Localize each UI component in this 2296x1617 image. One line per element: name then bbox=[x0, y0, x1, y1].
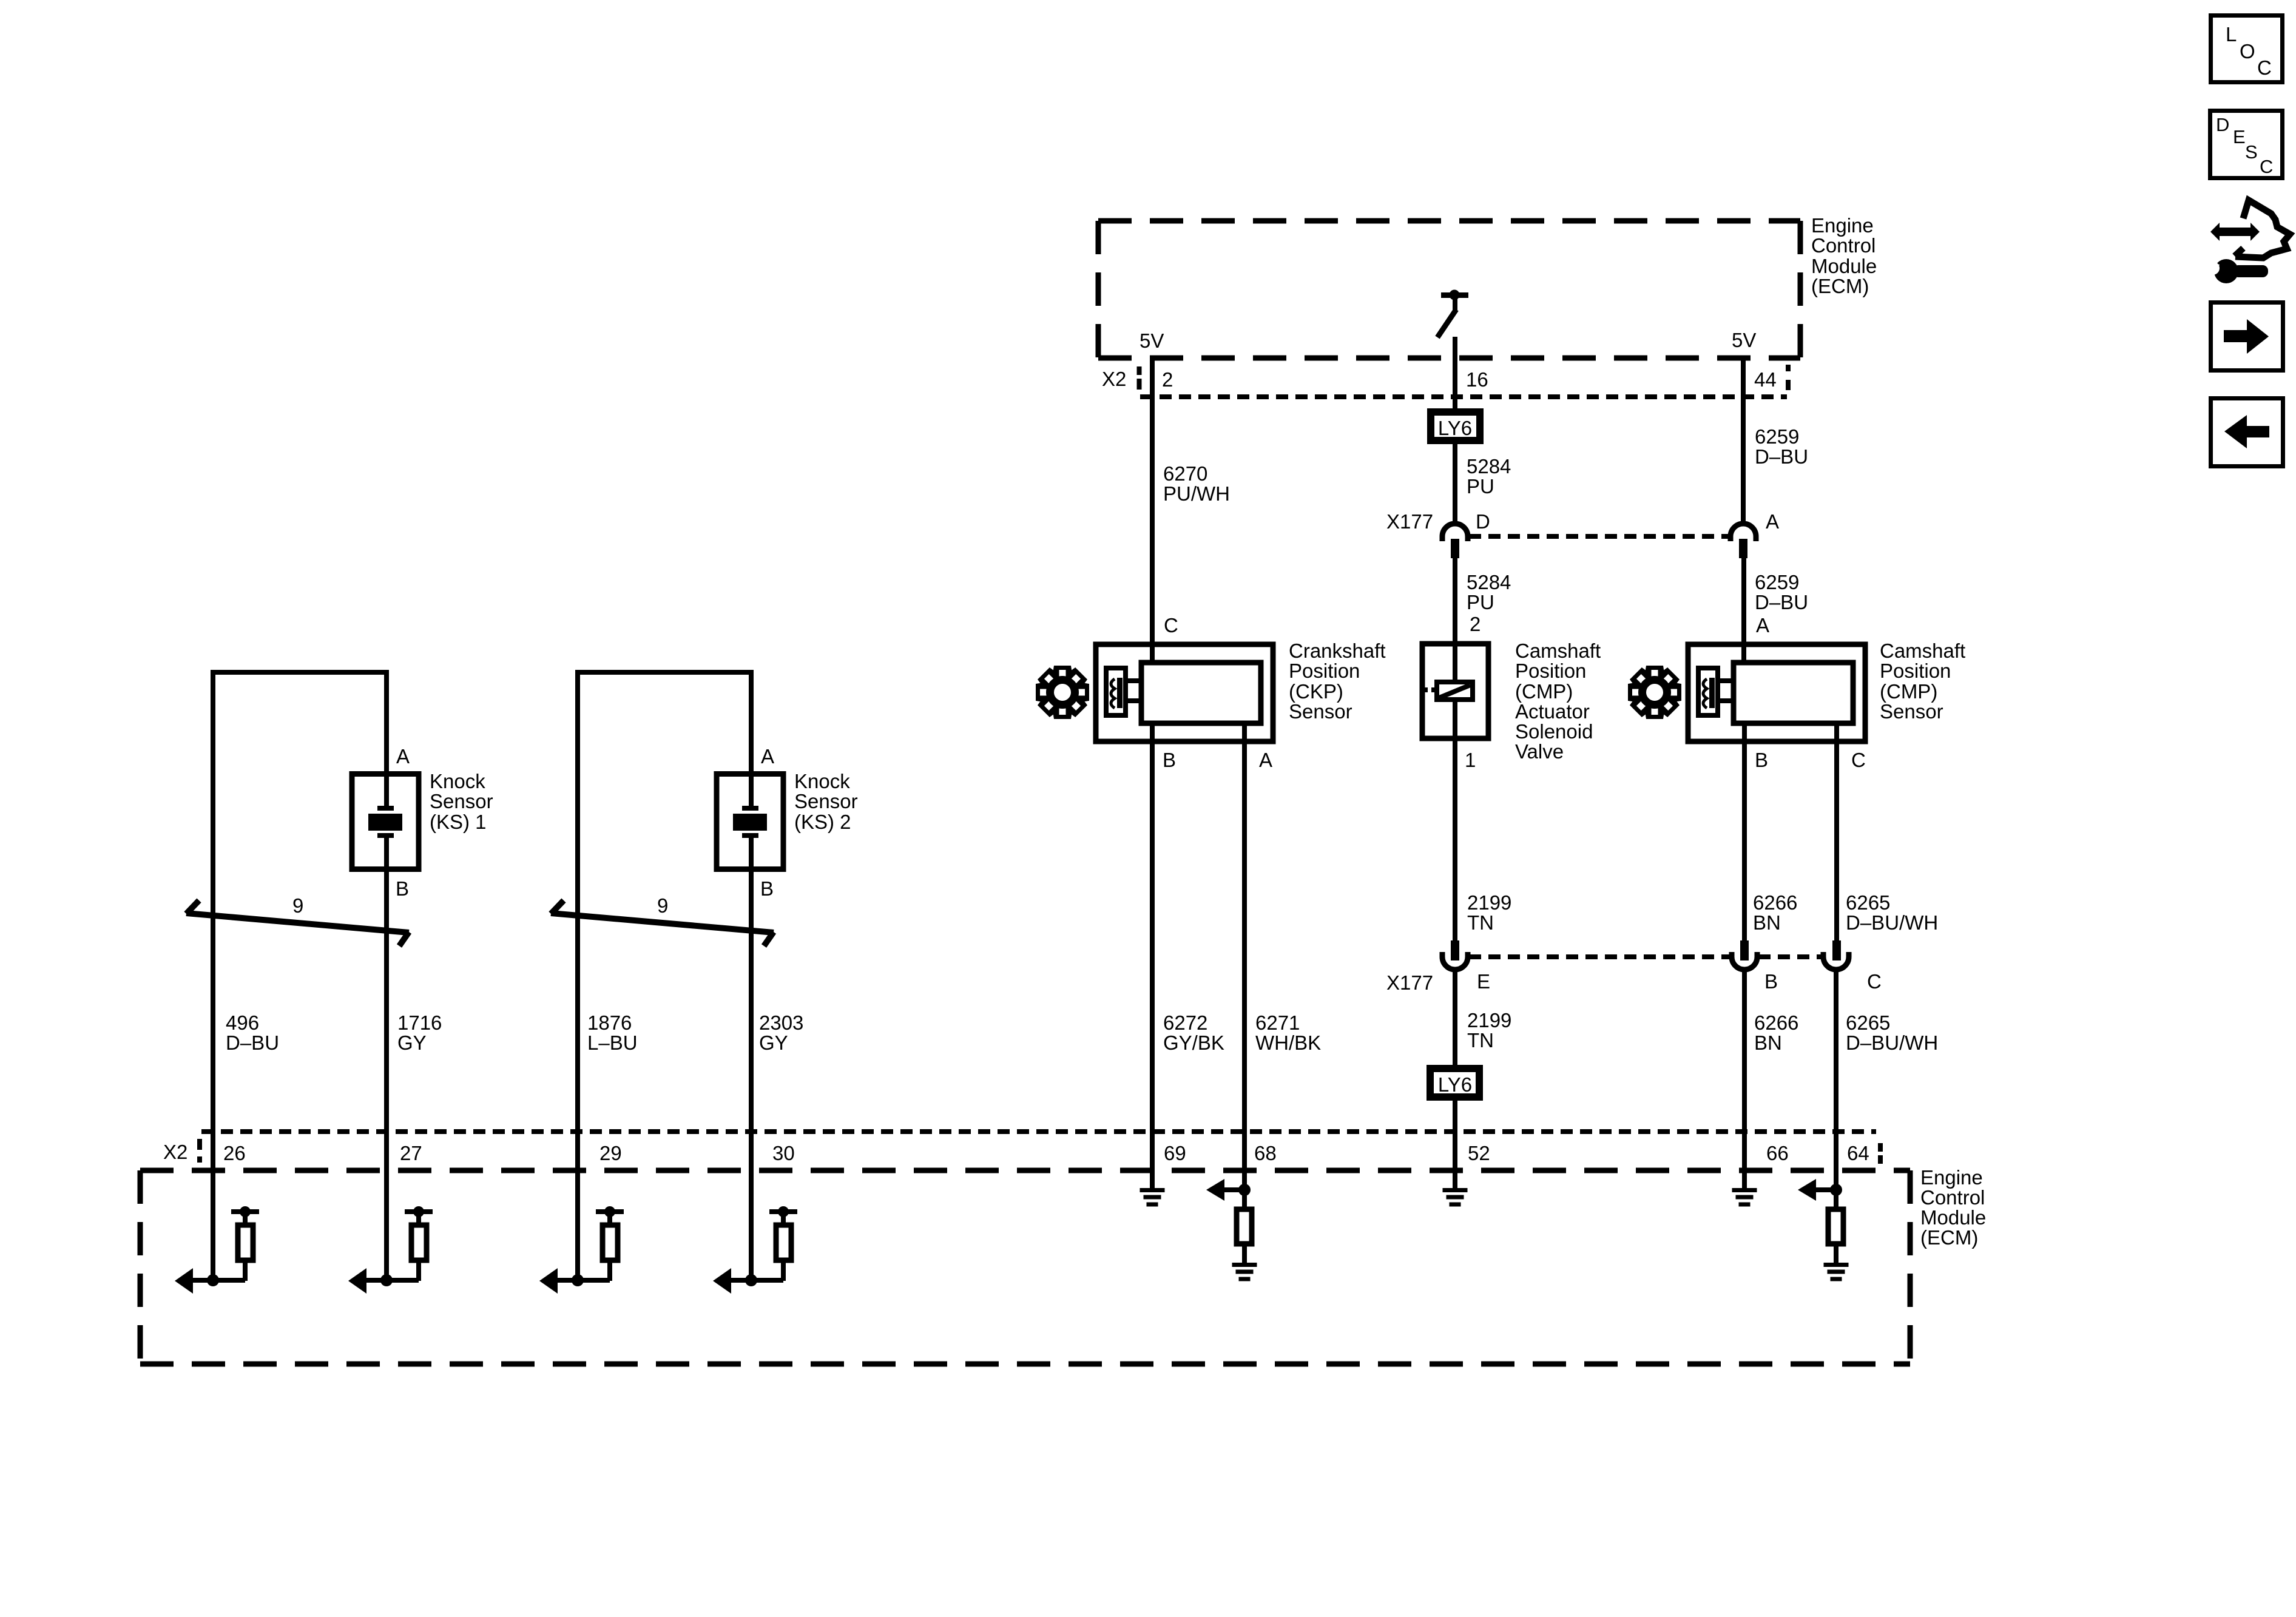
wire A to CMP sensor (6259 D-BU) bbox=[1741, 558, 1746, 663]
wire stub bbox=[243, 1263, 248, 1281]
svg-text:O: O bbox=[2240, 40, 2255, 62]
svg-text:(CMP): (CMP) bbox=[1880, 680, 1937, 703]
svg-text:6259: 6259 bbox=[1755, 425, 1799, 448]
wire label 1716 GY bbox=[397, 1011, 442, 1054]
wire label 5284 PU upper bbox=[1467, 455, 1511, 498]
svg-text:C: C bbox=[1867, 970, 1882, 993]
svg-text:D–BU: D–BU bbox=[226, 1031, 279, 1054]
ground pin 69 bbox=[1140, 1188, 1165, 1207]
svg-text:Control: Control bbox=[1811, 234, 1876, 257]
KS1 piezo element bbox=[368, 806, 402, 838]
arrow to other circuits bbox=[539, 1268, 558, 1294]
wire stub bbox=[781, 1263, 786, 1281]
svg-text:6259: 6259 bbox=[1755, 571, 1799, 593]
junction dot pin 26 bbox=[207, 1274, 219, 1286]
svg-text:PU: PU bbox=[1467, 591, 1494, 613]
connector C terminal bbox=[1823, 940, 1849, 970]
svg-text:GY: GY bbox=[759, 1031, 788, 1054]
svg-text:A: A bbox=[761, 745, 774, 768]
next page icon box bbox=[2211, 303, 2283, 371]
wire bbox=[193, 1278, 245, 1283]
svg-text:30: 30 bbox=[772, 1142, 795, 1164]
KS2 label bbox=[794, 770, 858, 833]
svg-text:B: B bbox=[1755, 749, 1768, 771]
svg-text:GY/BK: GY/BK bbox=[1163, 1031, 1224, 1054]
wire LY6 to connector D (5284 PU) bbox=[1453, 444, 1457, 521]
svg-text:B: B bbox=[1764, 970, 1778, 993]
junction dot pin 29 bbox=[572, 1274, 584, 1286]
svg-text:44: 44 bbox=[1754, 368, 1777, 391]
LOC icon box bbox=[2211, 16, 2283, 83]
svg-text:L–BU: L–BU bbox=[587, 1031, 638, 1054]
wire label 2199 TN upper bbox=[1467, 891, 1511, 934]
svg-text:Actuator: Actuator bbox=[1515, 700, 1590, 723]
wire stub bbox=[416, 1263, 421, 1281]
X2 bracket left (bottom) bbox=[197, 1139, 202, 1163]
arrow to other circuits bbox=[1798, 1179, 1816, 1201]
svg-text:66: 66 bbox=[1766, 1142, 1789, 1164]
svg-text:1716: 1716 bbox=[397, 1011, 442, 1034]
svg-text:D: D bbox=[1476, 510, 1490, 533]
svg-text:5V: 5V bbox=[1140, 329, 1164, 352]
svg-text:D–BU: D–BU bbox=[1755, 445, 1808, 468]
svg-text:Camshaft: Camshaft bbox=[1515, 640, 1601, 662]
wire label 5284 PU lower bbox=[1467, 571, 1511, 613]
svg-text:(KS) 2: (KS) 2 bbox=[794, 811, 851, 833]
connector A terminal bbox=[1730, 524, 1756, 558]
wire label 6270 PU/WH bbox=[1163, 462, 1230, 505]
CMP gear icon bbox=[1628, 666, 1681, 719]
svg-text:WH/BK: WH/BK bbox=[1255, 1031, 1321, 1054]
svg-text:5V: 5V bbox=[1732, 329, 1756, 351]
svg-text:Valve: Valve bbox=[1515, 740, 1564, 763]
wire KS1 loop to ECM pin26 (496 D-BU) bbox=[213, 672, 387, 1281]
svg-text:Position: Position bbox=[1515, 660, 1586, 682]
svg-text:B: B bbox=[1163, 749, 1176, 771]
CMP actuator box bbox=[1422, 644, 1488, 738]
KS2 box bbox=[717, 774, 783, 869]
svg-text:Engine: Engine bbox=[1920, 1166, 1983, 1189]
svg-text:PU/WH: PU/WH bbox=[1163, 482, 1230, 505]
ECM box (bottom) bbox=[140, 1170, 1910, 1364]
splice dot pin 30 bbox=[778, 1206, 789, 1217]
svg-text:D–BU: D–BU bbox=[1755, 591, 1808, 613]
CKP sensing element bbox=[1106, 668, 1141, 715]
svg-text:(KS) 1: (KS) 1 bbox=[430, 811, 487, 833]
svg-text:6272: 6272 bbox=[1163, 1011, 1207, 1034]
svg-text:Knock: Knock bbox=[794, 770, 850, 792]
wire label 6271 WH/BK bbox=[1255, 1011, 1321, 1054]
arrow to other circuits bbox=[1206, 1179, 1224, 1201]
pin 26 internal resistor + arrow bbox=[175, 1206, 259, 1294]
wire bbox=[1816, 1187, 1836, 1192]
arrow to other circuits bbox=[348, 1268, 366, 1294]
wire CMP C to X177 C (6265 D-BU/WH) bbox=[1834, 723, 1839, 940]
svg-text:1: 1 bbox=[1465, 749, 1476, 771]
KS1 label bbox=[430, 770, 493, 833]
wire solenoid pin1 to X177 E (2199 TN) bbox=[1453, 702, 1457, 940]
wire bbox=[366, 1278, 419, 1283]
wire stub bbox=[1834, 1246, 1838, 1263]
wire pin16 to LY6 bbox=[1453, 337, 1457, 408]
svg-text:2: 2 bbox=[1162, 368, 1173, 391]
X2 connector dotted line (top) bbox=[1140, 394, 1787, 399]
CMP actuator label bbox=[1515, 640, 1601, 763]
wire label 1876 L-BU bbox=[587, 1011, 638, 1054]
svg-text:Position: Position bbox=[1289, 660, 1360, 682]
wire bbox=[1224, 1187, 1244, 1192]
svg-text:X2: X2 bbox=[1102, 368, 1126, 390]
wire CMP B to X177 B (6266 BN) bbox=[1742, 723, 1747, 940]
internal splice bar pin 30 bbox=[769, 1209, 797, 1214]
connector D terminal bbox=[1442, 524, 1468, 558]
internal splice bar pin 29 bbox=[596, 1209, 624, 1214]
wire stub bbox=[1242, 1246, 1247, 1263]
KS1 box bbox=[352, 774, 419, 869]
svg-text:9: 9 bbox=[657, 894, 668, 917]
svg-text:6266: 6266 bbox=[1754, 1011, 1798, 1034]
svg-text:2303: 2303 bbox=[759, 1011, 803, 1034]
wire E to LY6 lower (2199 TN) bbox=[1453, 972, 1457, 1065]
svg-text:9: 9 bbox=[292, 894, 303, 917]
X2 bracket right (top) bbox=[1786, 365, 1791, 390]
CMP sensor outer box bbox=[1688, 644, 1865, 741]
resistor R29 bbox=[603, 1225, 618, 1260]
svg-text:64: 64 bbox=[1847, 1142, 1869, 1164]
ECM internal driver switch bbox=[1437, 290, 1468, 338]
svg-text:B: B bbox=[396, 877, 409, 900]
wire label 496 D-BU bbox=[226, 1011, 279, 1054]
svg-text:E: E bbox=[1477, 970, 1490, 993]
X2 connector dotted line (bottom) bbox=[201, 1129, 1876, 1134]
svg-text:6265: 6265 bbox=[1846, 891, 1890, 914]
svg-text:C: C bbox=[1164, 614, 1178, 636]
svg-text:X177: X177 bbox=[1386, 971, 1433, 994]
svg-text:Position: Position bbox=[1880, 660, 1951, 682]
svg-text:C: C bbox=[1851, 749, 1866, 771]
svg-text:Camshaft: Camshaft bbox=[1880, 640, 1965, 662]
svg-text:BN: BN bbox=[1754, 1031, 1782, 1054]
wire stub bbox=[243, 1212, 248, 1224]
svg-text:PU: PU bbox=[1467, 475, 1494, 498]
splice dot pin 26 bbox=[240, 1206, 251, 1217]
svg-text:Knock: Knock bbox=[430, 770, 485, 792]
svg-text:A: A bbox=[1259, 749, 1272, 771]
svg-text:(ECM): (ECM) bbox=[1920, 1226, 1978, 1249]
solenoid symbol bbox=[1423, 682, 1473, 700]
X2 bracket left (top) bbox=[1137, 366, 1142, 390]
svg-text:2199: 2199 bbox=[1467, 1009, 1511, 1031]
svg-text:Control: Control bbox=[1920, 1186, 1985, 1209]
svg-text:A: A bbox=[1766, 510, 1779, 533]
arrow to other circuits bbox=[713, 1268, 731, 1294]
wire label 6265 D-BU/WH upper bbox=[1846, 891, 1938, 934]
twisted pair symbol KS1 bbox=[186, 900, 409, 946]
junction dot pin 64 bbox=[1830, 1184, 1842, 1196]
ground pin 66 bbox=[1732, 1188, 1757, 1207]
wire KS1 B to ECM pin27 (1716 GY) bbox=[384, 836, 389, 1280]
connector view icon (engine + arrow + wrench) bbox=[2198, 200, 2290, 283]
svg-text:29: 29 bbox=[599, 1142, 622, 1164]
pin 29 internal resistor + arrow bbox=[539, 1206, 624, 1294]
svg-text:Sensor: Sensor bbox=[794, 790, 858, 812]
svg-text:C: C bbox=[2260, 156, 2273, 177]
CKP label bbox=[1289, 640, 1386, 723]
svg-text:2199: 2199 bbox=[1467, 891, 1511, 914]
LY6 box lower bbox=[1430, 1068, 1479, 1097]
pin 64 internal arrow + resistor + ground bbox=[1798, 1179, 1849, 1281]
resistor R27 bbox=[411, 1225, 427, 1260]
wire KS2 B to ECM pin30 (2303 GY) bbox=[749, 836, 754, 1280]
wire label 6266 BN lower bbox=[1754, 1011, 1798, 1054]
svg-text:68: 68 bbox=[1254, 1142, 1277, 1164]
CKP sensor outer box bbox=[1096, 644, 1273, 741]
pin 30 internal resistor + arrow bbox=[713, 1206, 797, 1294]
svg-text:TN: TN bbox=[1467, 911, 1494, 934]
wire label 2199 TN lower bbox=[1467, 1009, 1511, 1052]
wire bbox=[558, 1278, 610, 1283]
svg-text:2: 2 bbox=[1470, 613, 1481, 635]
wire label 6266 BN upper bbox=[1753, 891, 1797, 934]
wire label 2303 GY bbox=[759, 1011, 803, 1054]
svg-text:1876: 1876 bbox=[587, 1011, 632, 1034]
svg-text:X2: X2 bbox=[163, 1141, 187, 1163]
wire pin44 to connector A (6259 D-BU) bbox=[1741, 358, 1746, 521]
wire KS2 loop to ECM pin29 (1876 L-BU) bbox=[578, 672, 751, 1281]
wire stub bbox=[607, 1212, 612, 1224]
splice dot pin 27 bbox=[413, 1206, 424, 1217]
CKP gear icon bbox=[1036, 666, 1089, 719]
svg-text:Crankshaft: Crankshaft bbox=[1289, 640, 1386, 662]
wire label 6265 D-BU/WH lower bbox=[1846, 1011, 1938, 1054]
svg-text:5284: 5284 bbox=[1467, 571, 1511, 593]
ECM box (top) bbox=[1098, 221, 1800, 358]
svg-text:27: 27 bbox=[400, 1142, 422, 1164]
wire D to CMP actuator (5284 PU) bbox=[1453, 558, 1457, 680]
svg-text:LY6: LY6 bbox=[1438, 1073, 1472, 1096]
connector B terminal bbox=[1732, 940, 1757, 970]
svg-text:D: D bbox=[2216, 114, 2229, 135]
ground bbox=[1232, 1263, 1257, 1267]
wire B to ECM pin66 (6266 BN) bbox=[1742, 972, 1747, 1188]
svg-text:Module: Module bbox=[1811, 255, 1877, 277]
wire CKP B to ECM pin69 (6272 GY/BK) bbox=[1150, 723, 1155, 1188]
svg-text:Solenoid: Solenoid bbox=[1515, 720, 1593, 743]
svg-text:16: 16 bbox=[1466, 368, 1488, 391]
wire stub bbox=[1834, 1190, 1838, 1209]
svg-text:X177: X177 bbox=[1386, 510, 1433, 533]
svg-text:S: S bbox=[2245, 141, 2258, 163]
CMP sensing element bbox=[1698, 668, 1734, 715]
LY6 box upper bbox=[1431, 412, 1480, 441]
ground pin 52 bbox=[1443, 1188, 1468, 1207]
X177 dotted line (upper) bbox=[1469, 534, 1729, 539]
junction dot pin 30 bbox=[745, 1274, 757, 1286]
svg-text:(ECM): (ECM) bbox=[1811, 275, 1869, 297]
wire pin2 to CKP sensor (6270 PU/WH) bbox=[1150, 358, 1155, 663]
svg-text:D–BU/WH: D–BU/WH bbox=[1846, 1031, 1938, 1054]
svg-text:GY: GY bbox=[397, 1031, 427, 1054]
wire stub bbox=[416, 1212, 421, 1224]
svg-text:L: L bbox=[2226, 23, 2237, 46]
ECM label (bottom) bbox=[1920, 1166, 1986, 1249]
previous page icon box bbox=[2211, 399, 2283, 467]
resistor R30 bbox=[776, 1225, 791, 1260]
ECM label (top) bbox=[1811, 214, 1877, 297]
wire stub bbox=[781, 1212, 786, 1224]
twisted pair symbol KS2 bbox=[551, 900, 774, 946]
junction dot pin 68 bbox=[1238, 1184, 1251, 1196]
svg-text:C: C bbox=[2257, 56, 2272, 79]
CMP sensor inner box bbox=[1734, 663, 1853, 723]
svg-text:A: A bbox=[1756, 614, 1769, 636]
wire CKP A to ECM pin68 (6271 WH/BK) bbox=[1242, 723, 1247, 1190]
svg-text:Sensor: Sensor bbox=[1289, 700, 1352, 723]
svg-text:496: 496 bbox=[226, 1011, 259, 1034]
wire stub bbox=[607, 1263, 612, 1281]
pin 27 internal resistor + arrow bbox=[348, 1206, 433, 1294]
svg-text:LY6: LY6 bbox=[1438, 417, 1472, 439]
svg-text:TN: TN bbox=[1467, 1029, 1494, 1052]
svg-text:6271: 6271 bbox=[1255, 1011, 1300, 1034]
wire LY6 lower to ECM pin52 bbox=[1453, 1101, 1457, 1188]
X177 dotted line (lower) bbox=[1469, 954, 1822, 959]
svg-text:(CKP): (CKP) bbox=[1289, 680, 1343, 703]
arrow to other circuits bbox=[175, 1268, 193, 1294]
svg-text:Sensor: Sensor bbox=[1880, 700, 1943, 723]
wire label 6272 GY/BK bbox=[1163, 1011, 1224, 1054]
junction dot pin 27 bbox=[380, 1274, 393, 1286]
CMP sensor label bbox=[1880, 640, 1965, 723]
internal splice bar pin 26 bbox=[231, 1209, 259, 1214]
svg-text:6270: 6270 bbox=[1163, 462, 1207, 485]
wire stub bbox=[1242, 1190, 1247, 1209]
svg-text:D–BU/WH: D–BU/WH bbox=[1846, 911, 1938, 934]
connector E terminal bbox=[1442, 940, 1468, 970]
svg-text:6265: 6265 bbox=[1846, 1011, 1890, 1034]
internal splice bar pin 27 bbox=[405, 1209, 433, 1214]
svg-text:Module: Module bbox=[1920, 1206, 1986, 1229]
svg-text:B: B bbox=[760, 877, 774, 900]
wire label 6259 D-BU lower bbox=[1755, 571, 1808, 613]
svg-text:E: E bbox=[2233, 126, 2246, 147]
wire C to ECM pin64 (6265 D-BU/WH) bbox=[1834, 972, 1838, 1190]
resistor R68 bbox=[1237, 1209, 1252, 1244]
svg-text:6266: 6266 bbox=[1753, 891, 1797, 914]
resistor R26 bbox=[238, 1225, 253, 1260]
resistor R64 bbox=[1828, 1209, 1843, 1244]
svg-text:(CMP): (CMP) bbox=[1515, 680, 1573, 703]
CKP sensor inner box bbox=[1141, 663, 1261, 723]
wire bbox=[731, 1278, 783, 1283]
pin 68 internal arrow + resistor + ground bbox=[1206, 1179, 1257, 1281]
svg-text:5284: 5284 bbox=[1467, 455, 1511, 478]
DESC icon box bbox=[2210, 111, 2283, 178]
svg-text:BN: BN bbox=[1753, 911, 1781, 934]
svg-text:A: A bbox=[396, 745, 410, 768]
KS2 piezo element bbox=[733, 806, 767, 838]
ground bbox=[1824, 1263, 1849, 1267]
X2 bracket right (bottom) bbox=[1878, 1143, 1883, 1164]
svg-text:Engine: Engine bbox=[1811, 214, 1874, 237]
svg-text:52: 52 bbox=[1468, 1142, 1490, 1164]
splice dot pin 29 bbox=[604, 1206, 615, 1217]
svg-text:26: 26 bbox=[223, 1142, 246, 1164]
wire label 6259 D-BU upper bbox=[1755, 425, 1808, 468]
svg-text:69: 69 bbox=[1164, 1142, 1186, 1164]
svg-text:Sensor: Sensor bbox=[430, 790, 493, 812]
